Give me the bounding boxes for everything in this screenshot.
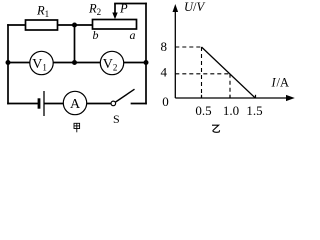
dashed U=8 horizontal	[175, 46, 201, 48]
U-I line	[202, 47, 256, 98]
wire switch to right corner	[132, 103, 147, 105]
wire top left segment	[8, 24, 26, 26]
resistor R1	[26, 20, 58, 30]
wire battery to ammeter	[45, 103, 64, 105]
svg-text:A: A	[70, 97, 81, 112]
wire V-row left	[8, 62, 30, 64]
svg-text:1.5: 1.5	[246, 103, 262, 118]
svg-text:4: 4	[161, 65, 168, 80]
svg-text:a: a	[130, 28, 136, 42]
graph y-axis	[174, 10, 176, 98]
battery	[39, 91, 44, 116]
rheostat R2	[93, 20, 137, 30]
svg-text:A: A	[280, 76, 289, 90]
svg-text:8: 8	[161, 39, 168, 54]
node middle V-row	[72, 60, 77, 65]
label jia (circuit caption)	[74, 123, 80, 132]
svg-text:0: 0	[162, 94, 169, 109]
dashed I=1.0 vertical	[229, 74, 231, 98]
dashed I=0.5 vertical	[201, 47, 203, 98]
wire ammeter to switch	[87, 103, 111, 105]
voltmeter V1	[30, 51, 53, 74]
svg-text:1.0: 1.0	[223, 103, 239, 118]
wire R1 to node	[58, 24, 93, 26]
voltmeter V2	[100, 51, 123, 74]
node right V-row	[144, 60, 149, 65]
wire left vertical	[7, 25, 9, 104]
node top junction	[72, 23, 77, 28]
x tick 1.5	[255, 95, 257, 98]
graph x-axis	[175, 97, 289, 99]
wire middle vertical	[74, 25, 76, 63]
wire bottom left	[8, 103, 38, 105]
svg-text:0.5: 0.5	[195, 103, 211, 118]
wire V2 to right	[124, 62, 146, 64]
wire V1 to node	[53, 62, 100, 64]
switch S	[111, 101, 116, 106]
svg-text:S: S	[113, 112, 120, 126]
node left V-row	[6, 60, 11, 65]
x tick 0.5	[201, 95, 203, 98]
ammeter A	[63, 91, 86, 114]
slider P arrow	[112, 4, 117, 20]
label yi (graph caption)	[212, 125, 220, 132]
x tick 1.0	[229, 95, 231, 98]
svg-text:P: P	[119, 2, 128, 16]
wire top right (slider to right edge)	[115, 3, 146, 5]
wire right vertical	[145, 4, 147, 104]
dashed U=4 horizontal	[175, 73, 230, 75]
svg-text:b: b	[93, 28, 99, 42]
